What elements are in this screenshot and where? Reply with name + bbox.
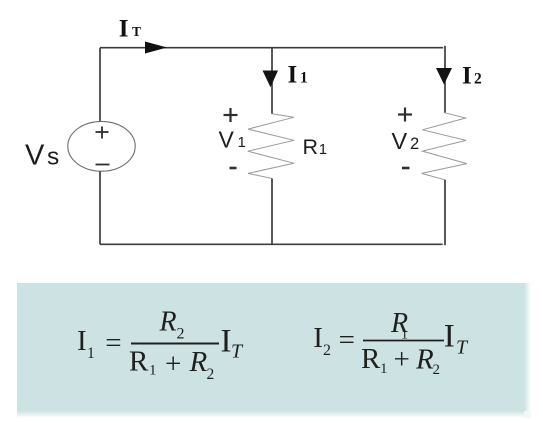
svg-text:R: R: [189, 346, 208, 378]
svg-text:2: 2: [177, 326, 185, 343]
svg-text:=: =: [105, 327, 121, 359]
wire middle branch lower: [271, 179, 273, 245]
svg-text:I: I: [119, 16, 129, 43]
svg-text:I: I: [313, 322, 323, 354]
wire middle branch upper: [271, 48, 273, 114]
svg-text:I: I: [444, 319, 455, 355]
svg-text:1: 1: [380, 361, 388, 377]
svg-text:V: V: [25, 140, 45, 172]
svg-text:1: 1: [87, 345, 95, 362]
svg-text:R: R: [159, 307, 177, 338]
svg-text:1: 1: [149, 363, 157, 379]
svg-text:2: 2: [474, 71, 482, 88]
plus sign inside source: [96, 127, 109, 139]
wire left vertical lower: [99, 171, 101, 244]
voltage source VS ellipse: [68, 121, 135, 171]
resistor R2 zigzag: [422, 113, 467, 180]
svg-text:V: V: [219, 126, 235, 152]
svg-text:R: R: [303, 135, 319, 159]
arrow I2: [436, 68, 452, 85]
svg-text:+: +: [165, 348, 181, 380]
wire left vertical upper: [99, 48, 101, 122]
wire top horizontal: [100, 47, 443, 49]
svg-text:I: I: [221, 324, 232, 360]
svg-text:I: I: [288, 62, 298, 89]
svg-text:R: R: [361, 343, 381, 375]
svg-text:T: T: [132, 24, 141, 39]
formula 2: I2 = R1/(R1+R2) IT: [313, 308, 469, 378]
minus sign inside source: [96, 164, 110, 166]
svg-text:R: R: [129, 346, 149, 378]
wire bottom horizontal: [100, 243, 443, 245]
plus sign for V2: [398, 108, 412, 122]
formula 1: I1 = R2/(R1+R2) IT: [77, 307, 244, 384]
svg-text:T: T: [231, 341, 244, 363]
svg-text:1: 1: [238, 134, 246, 151]
svg-text:2: 2: [323, 342, 331, 359]
minus sign for V2: [402, 167, 410, 170]
svg-text:1: 1: [319, 141, 327, 158]
resistor R1 zigzag: [248, 114, 294, 179]
svg-text:V: V: [392, 128, 408, 154]
svg-text:2: 2: [433, 362, 441, 378]
svg-text:+: +: [394, 344, 410, 376]
minus sign for V1: [230, 167, 237, 170]
plus sign for V1: [224, 108, 238, 122]
svg-text:I: I: [77, 325, 87, 357]
wire right branch lower: [444, 180, 446, 245]
svg-text:T: T: [456, 337, 469, 359]
svg-text:=: =: [339, 324, 355, 356]
arrow IT on top wire: [145, 42, 167, 54]
svg-text:s: s: [47, 144, 59, 171]
svg-text:2: 2: [410, 135, 419, 153]
svg-text:1: 1: [300, 70, 308, 87]
wire right branch upper: [444, 46, 446, 113]
svg-text:2: 2: [207, 366, 215, 383]
svg-text:I: I: [462, 63, 472, 90]
svg-text:R: R: [415, 344, 434, 376]
arrow I1: [263, 71, 279, 88]
